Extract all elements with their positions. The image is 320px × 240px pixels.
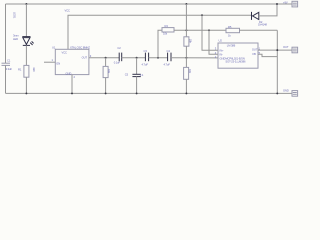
capacitor C2: [119, 53, 122, 62]
capacitor C3: [145, 53, 148, 62]
wire signal segment 1: [89, 57, 119, 59]
node R2 bottom: [105, 92, 107, 94]
svg-text:2: 2: [74, 75, 76, 79]
svg-text:C4: C4: [167, 49, 171, 53]
node V2 H30: [208, 29, 210, 31]
wire R6 from rail: [185, 4, 187, 37]
wire R4 left vertical: [158, 30, 162, 57]
svg-text:VCC: VCC: [65, 9, 71, 13]
node R2 top: [105, 57, 107, 59]
capacitor C5: [132, 74, 140, 76]
svg-text:FB: FB: [253, 52, 257, 56]
svg-text:0.1: 0.1: [140, 73, 144, 77]
svg-text:OUT: OUT: [82, 55, 88, 59]
node R6 H30: [185, 29, 187, 31]
wire LED to R1: [25, 45, 27, 65]
wire R1 to rail: [25, 77, 27, 93]
LED D1: [22, 37, 33, 46]
svg-text:4.7uF: 4.7uF: [142, 63, 149, 67]
wire R2 to rail: [105, 78, 107, 94]
svg-text:EN: EN: [57, 61, 61, 65]
svg-text:VCC: VCC: [62, 51, 68, 55]
wire bottom rail: [6, 92, 293, 94]
svg-text:LM 386: LM 386: [227, 44, 236, 48]
wire U2 out: [258, 49, 292, 51]
capacitor C1: [2, 63, 11, 65]
wire H30 segment 1: [174, 29, 226, 31]
node 277 bottom: [276, 92, 278, 94]
svg-text:10k: 10k: [107, 69, 111, 74]
resistor R5: [226, 28, 240, 32]
resistor R2: [103, 66, 108, 77]
wire LED branch upper: [25, 4, 27, 37]
svg-text:3.3uF: 3.3uF: [6, 67, 13, 71]
svg-text:330: 330: [32, 67, 36, 72]
svg-text:GND: GND: [283, 89, 289, 93]
svg-text:OUT: OUT: [252, 48, 258, 52]
wire V2 to U2 pin2: [209, 30, 218, 54]
wire R6 to signal: [185, 46, 187, 58]
node diode top rail: [276, 3, 278, 5]
svg-text:C5: C5: [125, 72, 129, 76]
terminal GND: [292, 91, 298, 97]
svg-text:4.7uF: 4.7uF: [164, 63, 171, 67]
wire left leg lower: [5, 65, 7, 93]
wire U1 EN stub: [44, 61, 55, 63]
svg-text:0.1uF: 0.1uF: [114, 60, 121, 64]
capacitor C4: [168, 53, 171, 62]
resistor R7: [184, 67, 189, 79]
wire C5 drop: [136, 58, 138, 75]
node R6 top rail: [185, 3, 187, 5]
node LED branch top: [25, 3, 27, 5]
svg-text:U2: U2: [219, 39, 223, 43]
wire signal segment 3: [149, 57, 168, 59]
node out 277: [276, 49, 278, 51]
wire signal segment 4: [171, 57, 218, 59]
svg-text:1: 1: [52, 58, 54, 62]
svg-text:SOT-23-5_LM386: SOT-23-5_LM386: [225, 60, 246, 64]
wire diode to top rail: [259, 4, 277, 16]
svg-text:1k: 1k: [228, 33, 231, 37]
svg-text:C2: C2: [117, 46, 121, 50]
node R7 bottom: [185, 92, 187, 94]
svg-text:+9V: +9V: [283, 1, 288, 5]
wire R7 drop: [185, 58, 187, 68]
svg-text:IN+: IN+: [220, 48, 224, 52]
wire H30 segment 2: [240, 29, 278, 31]
wire U1 GND: [71, 75, 73, 94]
svg-text:IN-: IN-: [220, 53, 223, 57]
wire R2 drop: [105, 58, 107, 67]
svg-text:XTAL OSC 8MHZ: XTAL OSC 8MHZ: [70, 46, 90, 50]
node R6 R7 signal: [185, 57, 187, 59]
wire U2 pin2 right jog: [258, 54, 277, 56]
svg-text:2: 2: [215, 55, 217, 59]
resistor R6: [184, 37, 189, 46]
node R4 branch: [157, 57, 159, 59]
diode D2: [252, 12, 259, 20]
wire top rail: [6, 3, 293, 5]
svg-text:GND: GND: [66, 72, 72, 76]
terminal OUT: [292, 47, 298, 53]
resistor R4: [162, 28, 174, 32]
svg-text:R1: R1: [18, 68, 22, 72]
svg-text:1N4148: 1N4148: [258, 22, 267, 26]
node U1 GND rail: [71, 92, 73, 94]
wire VCC rail: [68, 15, 251, 49]
svg-text:GND: GND: [220, 56, 226, 60]
wire C5 to rail: [136, 77, 138, 94]
wire rail to U2 pin1: [202, 15, 218, 50]
svg-text:OUT: OUT: [283, 45, 289, 49]
IC U2: [218, 43, 258, 68]
svg-text:C1: C1: [7, 59, 11, 63]
oscillator U1: [55, 49, 89, 74]
wire signal segment 2: [122, 57, 146, 59]
wire R7 to rail: [185, 79, 187, 93]
node LED bottom: [25, 92, 27, 94]
svg-text:C3: C3: [144, 49, 148, 53]
wire 277 vertical: [276, 30, 278, 93]
node C5 bottom: [136, 92, 138, 94]
svg-text:LED: LED: [13, 37, 18, 41]
resistor R1: [24, 65, 29, 77]
node rail to U2 pin1: [201, 14, 203, 16]
terminal +9V: [292, 1, 298, 7]
svg-text:LED1: LED1: [13, 12, 17, 19]
wire left leg upper: [5, 4, 7, 63]
node C5 top: [136, 57, 138, 59]
